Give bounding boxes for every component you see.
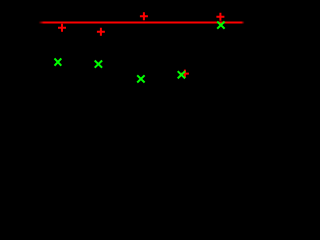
red plus data point 5	[216, 13, 224, 21]
red plus data point 4	[181, 70, 189, 78]
red plus data point 1	[58, 24, 66, 32]
green cross data point 1	[55, 58, 62, 65]
green cross data point 2	[95, 61, 102, 68]
green cross data point 5	[217, 22, 224, 29]
red plus data point 2	[97, 28, 105, 36]
green cross data point 3	[137, 75, 144, 82]
red fit line f(x)	[39, 22, 245, 24]
red plus data point 3	[140, 12, 148, 20]
green cross data point 4	[178, 71, 185, 78]
